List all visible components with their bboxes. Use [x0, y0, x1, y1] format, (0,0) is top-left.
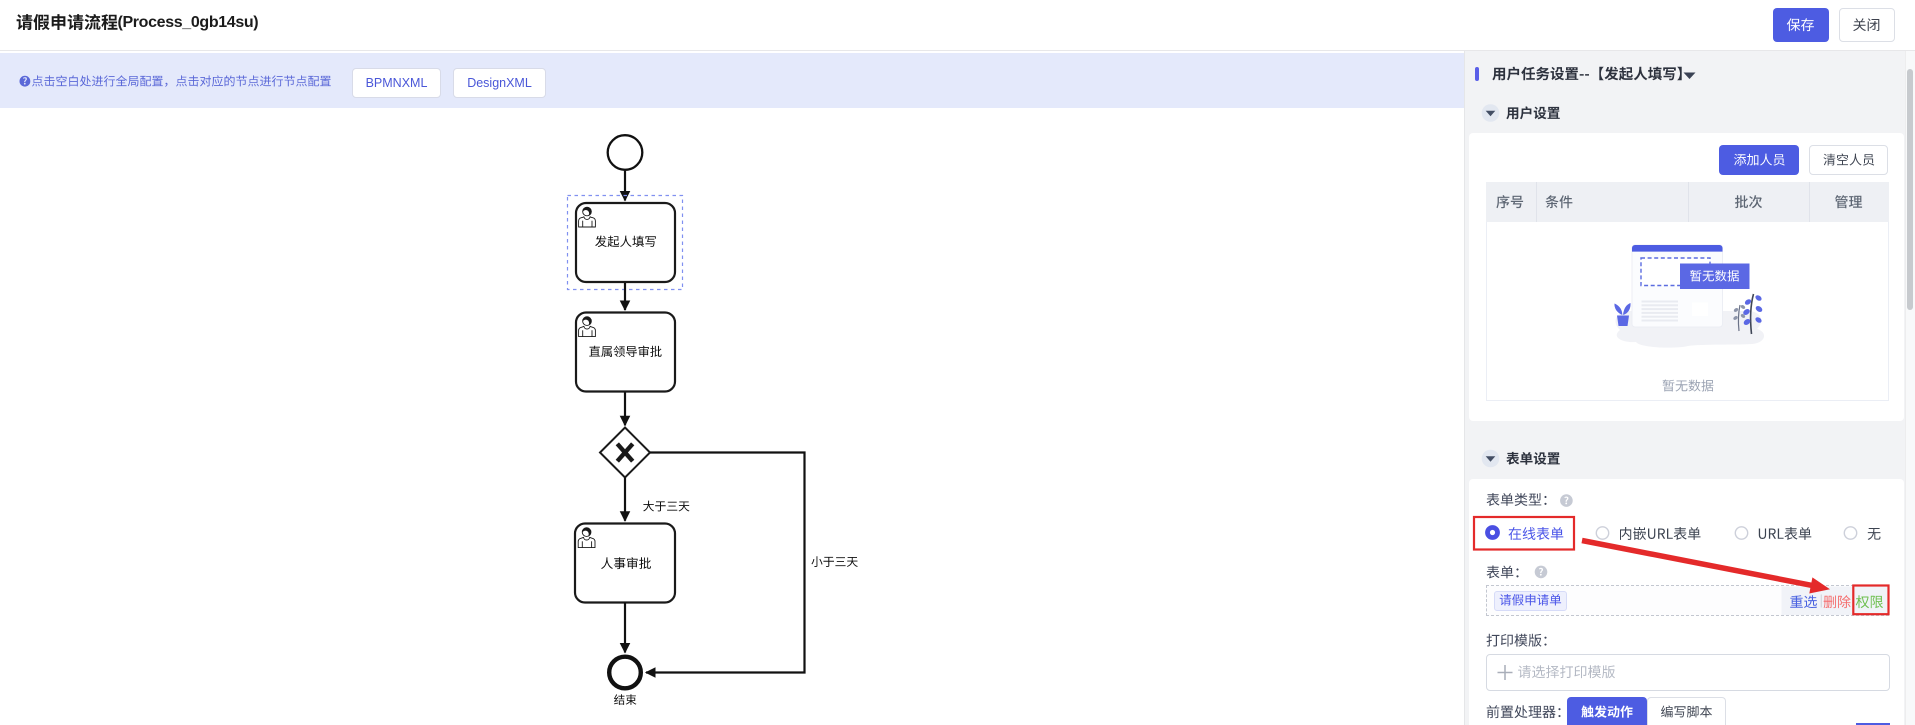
DesignXML button [453, 68, 546, 98]
form dashed picker box [1486, 585, 1889, 616]
empty-state white square [1692, 303, 1708, 317]
text: lbl-form-type [1487, 493, 1547, 506]
empty-state browser window [1632, 245, 1723, 327]
notice bar [0, 53, 1464, 108]
add person button [1719, 145, 1799, 175]
text: btn-trigger-label [1581, 705, 1632, 717]
sequence flow: start to task 发起人填写 [624, 171, 626, 201]
text: save-btn-label [1787, 18, 1814, 31]
text: task1-label [595, 236, 656, 248]
text: radio2-label [1620, 527, 1701, 540]
selection outline (dashed) around task 发起人填写 [568, 196, 683, 290]
text: flow-label-lt [811, 556, 857, 567]
text: link-perm [1856, 595, 1883, 608]
BPMNXML button [352, 68, 441, 98]
notice help icon [20, 76, 31, 87]
text: sec-form-label [1506, 452, 1560, 465]
text: task2-label [589, 346, 661, 357]
text: btn-clear-label [1824, 154, 1875, 166]
text: notice-text [32, 75, 331, 87]
save button [1773, 8, 1829, 42]
text: sec-user-label [1506, 106, 1560, 119]
radio: URL表单 [1735, 527, 1747, 539]
trigger action button [1567, 697, 1647, 725]
table header [1486, 182, 1889, 222]
radio selected: 在线表单 [1485, 525, 1500, 540]
text: lbl-pre [1487, 705, 1561, 718]
help icon: 表单 [1535, 566, 1548, 579]
collapse circle: 用户设置 [1482, 104, 1500, 122]
text: th-tiaojian [1545, 195, 1572, 208]
sequence flow: gateway to end event (小于三天) [646, 453, 805, 673]
text: btn-add-label [1734, 154, 1785, 166]
text: link-delete [1824, 595, 1851, 608]
text: end-label [614, 694, 637, 705]
text: lbl-form [1487, 566, 1519, 579]
exclusive gateway (X) [600, 428, 650, 478]
text: q-formtype [1564, 497, 1568, 505]
text: placeholder-print [1518, 665, 1615, 678]
text: panel-title [1492, 67, 1681, 81]
text: task3-label [601, 557, 651, 569]
radio: 无 [1844, 527, 1856, 539]
sequence flow: gateway to task 人事审批 (大于三天) [624, 478, 626, 521]
form tag 请假申请单 [1494, 591, 1567, 611]
empty-state right branches [1733, 294, 1764, 334]
link divider [1820, 595, 1822, 608]
close button [1839, 8, 1895, 42]
user task 人事审批 [575, 524, 675, 603]
annotation red box around 权限 [1853, 586, 1888, 615]
user task 发起人填写 [576, 203, 675, 282]
links hover background patch [1782, 587, 1888, 616]
panel title marker [1475, 67, 1479, 82]
text: q-notice [23, 77, 27, 84]
radio: 内嵌URL表单 [1596, 527, 1608, 539]
text: empty-badge-label [1690, 270, 1739, 282]
top header bar [0, 0, 1915, 51]
text: th-xuhao [1496, 195, 1523, 208]
print template input [1486, 654, 1890, 691]
plus sign in print template picker [1498, 665, 1513, 680]
empty-state left plant [1614, 303, 1630, 326]
text: tag-label [1500, 594, 1561, 606]
scrollbar track [1905, 51, 1915, 725]
sequence flow: task2 to gateway [624, 393, 626, 426]
card 2 (form settings) [1469, 479, 1904, 725]
panel title caret [1684, 73, 1696, 80]
empty-state list lines [1642, 301, 1679, 322]
text: th-pici [1735, 195, 1762, 208]
clear person button [1809, 145, 1888, 175]
collapse circle: 表单设置 [1482, 450, 1500, 468]
annotation red arrow [1582, 541, 1814, 586]
text: title-cjk [17, 14, 118, 30]
card 1 (user settings) [1469, 133, 1904, 421]
text: link-reselect [1790, 595, 1817, 608]
text: btn-script-label [1661, 706, 1712, 718]
text: q-form [1539, 568, 1543, 576]
latin part of title [118, 15, 259, 31]
empty-state ground blob [1616, 311, 1765, 348]
text: radio1-label [1509, 527, 1564, 540]
right panel background [1464, 51, 1915, 725]
empty-state badge [1680, 264, 1750, 290]
hidden blue button sliver at bottom [1856, 723, 1890, 725]
text: radio4-label [1868, 528, 1881, 540]
annotation red box around 在线表单 [1474, 517, 1574, 550]
end event [609, 657, 641, 689]
user task 直属领导审批 [576, 313, 675, 392]
scrollbar thumb [1907, 69, 1914, 310]
start event [608, 135, 643, 170]
sequence flow: task1 to task2 [624, 283, 626, 310]
write script button [1647, 697, 1726, 725]
sequence flow: task3 to end event [624, 603, 626, 653]
text: lbl-print [1487, 634, 1547, 647]
text: flow-label-gt [643, 501, 689, 512]
help icon: 表单类型 [1560, 494, 1573, 507]
table body frame [1486, 222, 1889, 401]
text: empty-text [1663, 380, 1714, 392]
text: radio3-label [1759, 527, 1812, 540]
empty-state dashed selection rect [1641, 258, 1710, 286]
text: close-btn-label [1853, 18, 1879, 31]
text: th-guanli [1835, 195, 1862, 208]
